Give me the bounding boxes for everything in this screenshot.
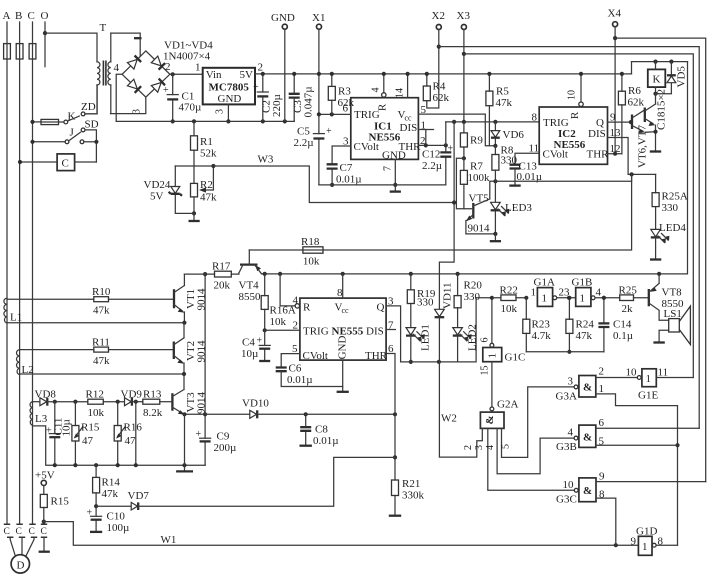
node A — [3, 10, 11, 22]
svg-text:R14: R14 — [102, 477, 121, 489]
ground IC1 — [390, 185, 401, 192]
svg-text:VT6,VT7: VT6,VT7 — [637, 124, 649, 168]
node O — [41, 10, 49, 22]
wire IC2 cvolt pin 11 — [515, 142, 539, 164]
resistor R8 — [492, 145, 518, 184]
svg-text:0.1µ: 0.1µ — [613, 330, 633, 342]
wire Q out bus — [401, 360, 458, 364]
svg-text:THR: THR — [365, 350, 388, 362]
svg-text:0.01µ: 0.01µ — [313, 435, 339, 447]
svg-text:1: 1 — [487, 353, 499, 359]
svg-text:52k: 52k — [200, 148, 217, 160]
svg-text:47k: 47k — [93, 355, 110, 367]
transformer T — [45, 22, 111, 114]
svg-text:Vin: Vin — [206, 69, 222, 81]
svg-text:8: 8 — [532, 112, 538, 124]
buffer G1A — [531, 277, 576, 307]
terminal X3 — [457, 10, 471, 122]
relay coil K — [632, 60, 688, 96]
svg-text:1: 1 — [642, 541, 648, 553]
svg-text:47k: 47k — [200, 192, 217, 204]
transistor VT8 — [649, 274, 684, 320]
svg-text:C: C — [41, 527, 47, 537]
nand G3A — [556, 366, 680, 546]
svg-text:R25A: R25A — [662, 191, 688, 203]
svg-text:W3: W3 — [258, 154, 274, 166]
speaker LS1 — [653, 306, 690, 344]
svg-text:R10: R10 — [92, 286, 111, 298]
svg-text:C10: C10 — [107, 511, 126, 523]
fuse FA — [4, 44, 11, 59]
svg-text:62k: 62k — [628, 97, 645, 109]
svg-text:6: 6 — [599, 417, 605, 429]
terminal X1 — [312, 12, 325, 132]
svg-text:G3A: G3A — [556, 391, 577, 403]
inductor L1 — [4, 298, 22, 323]
svg-text:NE555: NE555 — [332, 325, 364, 337]
svg-text:C: C — [28, 10, 35, 22]
svg-text:R16: R16 — [124, 422, 143, 434]
svg-text:A: A — [3, 10, 11, 22]
svg-text:+: + — [448, 144, 454, 155]
svg-text:4: 4 — [596, 287, 602, 299]
svg-text:VD24: VD24 — [144, 179, 171, 191]
svg-text:62k: 62k — [338, 97, 355, 109]
resistor R19 — [407, 274, 436, 328]
transistor VT3 — [172, 374, 207, 416]
capacitor C12 — [422, 122, 454, 185]
svg-text:R1: R1 — [200, 136, 213, 148]
resistor R21 — [389, 414, 425, 515]
svg-text:47k: 47k — [576, 330, 593, 342]
svg-text:200µ: 200µ — [214, 442, 237, 454]
wire NE555 thr to C8 node — [386, 354, 395, 415]
nand G3B — [556, 417, 699, 453]
ground below LED3 — [490, 234, 501, 241]
wire NE555 dis pin 7 — [386, 320, 395, 332]
svg-text:THR: THR — [587, 149, 610, 161]
capacitor C10 — [87, 506, 130, 534]
wire phase A line — [6, 22, 8, 524]
svg-text:R15: R15 — [51, 496, 70, 508]
svg-text:C: C — [29, 527, 35, 537]
svg-text:C12: C12 — [422, 149, 440, 161]
svg-text:330: 330 — [464, 291, 481, 303]
wire VT4 emitter rail — [262, 62, 688, 276]
svg-text:LED2: LED2 — [467, 324, 479, 351]
svg-text:+: + — [253, 82, 259, 93]
inverter G1C — [480, 296, 526, 407]
wire NE555 out pin 3 — [386, 296, 401, 362]
wire IC1 vcc pin 14 — [395, 72, 410, 98]
resistor R3 — [328, 72, 354, 115]
resistor R25A — [652, 174, 688, 229]
resistor R5 — [486, 72, 513, 146]
svg-text:C14: C14 — [613, 319, 632, 331]
resistor R4 — [423, 72, 449, 108]
svg-text:+: + — [196, 429, 202, 440]
svg-text:VD8: VD8 — [35, 389, 57, 401]
svg-text:&: & — [484, 415, 496, 424]
svg-text:R15: R15 — [81, 422, 100, 434]
capacitor C11 — [46, 402, 73, 466]
resistor R25 — [619, 285, 649, 316]
wire O line — [43, 22, 47, 67]
svg-text:4: 4 — [371, 88, 382, 93]
svg-text:G1E: G1E — [638, 390, 658, 402]
svg-text:G1A: G1A — [534, 277, 555, 289]
transistors VT6 VT7 — [631, 89, 668, 168]
svg-text:C: C — [4, 527, 10, 537]
capacitor C1 — [163, 74, 201, 123]
svg-text:4: 4 — [114, 62, 120, 74]
svg-text:VT5: VT5 — [469, 193, 490, 205]
svg-text:2: 2 — [165, 61, 171, 73]
switch J — [30, 127, 98, 144]
resistor R14 — [93, 465, 121, 508]
svg-text:O: O — [41, 10, 49, 22]
svg-text:R21: R21 — [402, 478, 420, 490]
svg-text:C5: C5 — [297, 126, 310, 138]
svg-text:330: 330 — [501, 155, 518, 167]
svg-text:CVolt: CVolt — [303, 350, 328, 362]
svg-text:11: 11 — [529, 142, 540, 154]
capacitor C4 — [241, 330, 270, 361]
wire L2 lower tap — [20, 372, 186, 376]
svg-text:LED3: LED3 — [505, 202, 532, 214]
svg-text:10k: 10k — [303, 256, 320, 268]
svg-text:LED4: LED4 — [659, 222, 686, 234]
resistor R10 — [7, 286, 174, 317]
svg-text:R7: R7 — [470, 161, 483, 173]
contactor coil box C — [18, 154, 97, 171]
svg-text:C1815×2: C1815×2 — [656, 89, 668, 130]
svg-text:G1C: G1C — [505, 352, 526, 364]
svg-text:T: T — [100, 22, 107, 34]
resistor R18 — [301, 236, 323, 268]
capacitor C3 — [289, 72, 315, 122]
svg-text:Q: Q — [377, 302, 385, 314]
svg-text:+: + — [257, 336, 263, 347]
svg-text:VT8: VT8 — [662, 287, 683, 299]
svg-text:1: 1 — [195, 62, 201, 74]
wire IC2 dis pin 13 — [608, 127, 629, 174]
wire IC2 out pin 9 — [608, 111, 634, 124]
resistor R12 — [86, 389, 125, 420]
wire VT5 collector to R8 node — [490, 174, 632, 199]
svg-text:11: 11 — [658, 367, 669, 379]
svg-text:10k: 10k — [270, 316, 287, 328]
svg-text:2: 2 — [599, 366, 605, 378]
svg-text:3: 3 — [568, 376, 574, 388]
svg-text:330k: 330k — [402, 490, 425, 502]
wire VD9 junction down — [135, 402, 137, 466]
capacitor C13 — [509, 161, 542, 186]
wire phase B line — [19, 22, 21, 524]
wire bridge positive to regulator — [170, 62, 203, 77]
wire X4 to right edge — [615, 38, 706, 482]
svg-text:R11: R11 — [92, 337, 110, 349]
svg-text:1: 1 — [646, 373, 652, 385]
svg-text:14: 14 — [395, 88, 406, 98]
svg-text:VD7: VD7 — [128, 490, 150, 502]
svg-text:VD6: VD6 — [503, 129, 525, 141]
svg-text:R25: R25 — [619, 285, 638, 297]
svg-text:4: 4 — [568, 427, 574, 439]
svg-text:2: 2 — [463, 445, 474, 450]
bridge rectifier VD1~VD4 — [114, 40, 214, 115]
fuse FC — [29, 44, 36, 59]
svg-text:R: R — [377, 103, 389, 111]
svg-text:+: + — [326, 126, 332, 137]
svg-text:R6: R6 — [628, 85, 641, 97]
connector row C C C C — [4, 524, 48, 537]
resistor R9 — [460, 122, 483, 160]
node B — [15, 10, 22, 22]
resistor R2 preset — [191, 164, 218, 216]
resistor R24 — [566, 296, 594, 354]
svg-text:DIS: DIS — [366, 325, 384, 337]
svg-text:2k: 2k — [622, 303, 634, 315]
wire secondary top to bridge — [111, 33, 142, 56]
wire IC1 dis pin 1 — [418, 120, 433, 146]
wire phase C line — [32, 22, 34, 524]
resistor R11 — [20, 337, 174, 368]
svg-text:G2A: G2A — [497, 399, 518, 411]
svg-text:SD: SD — [85, 118, 99, 130]
switch K with series fuse — [30, 111, 79, 125]
svg-text:G3B: G3B — [556, 441, 577, 453]
svg-text:10k: 10k — [88, 407, 105, 419]
svg-text:+: + — [163, 85, 169, 96]
wire IC1 thr to IC2 trig — [446, 120, 539, 124]
svg-text:ZD: ZD — [81, 101, 96, 113]
svg-text:L1: L1 — [10, 312, 22, 324]
svg-text:470µ: 470µ — [179, 102, 202, 114]
svg-text:MC7805: MC7805 — [209, 82, 250, 94]
svg-text:B: B — [15, 10, 22, 22]
capacitor C14 — [598, 296, 633, 352]
wire NE555 trig pin 2 — [265, 320, 300, 332]
svg-text:62k: 62k — [433, 92, 450, 104]
svg-text:R22: R22 — [500, 285, 518, 297]
svg-text:DIS: DIS — [588, 128, 606, 140]
svg-text:330: 330 — [662, 202, 679, 214]
svg-text:5: 5 — [501, 444, 512, 449]
transistor VT5 — [466, 193, 496, 235]
svg-text:R18: R18 — [301, 236, 320, 248]
capacitor C5 — [294, 126, 333, 185]
capacitor C6 — [276, 363, 343, 387]
svg-text:C: C — [62, 158, 69, 170]
timer IC1 NE556 — [351, 98, 421, 162]
svg-text:VD5: VD5 — [676, 66, 688, 88]
diode VD5 — [656, 62, 688, 94]
svg-text:GND: GND — [337, 336, 349, 360]
svg-text:20k: 20k — [214, 280, 231, 292]
wire NE555 cvolt pin 5 — [281, 343, 300, 368]
inductor L3 — [30, 402, 48, 425]
diode VD6 — [491, 122, 524, 148]
svg-text:R12: R12 — [86, 389, 104, 401]
wire bridge negative to ground rail — [116, 74, 122, 121]
svg-text:R3: R3 — [338, 86, 351, 98]
svg-text:&: & — [583, 432, 592, 444]
svg-text:DIS: DIS — [400, 122, 418, 134]
svg-text:47: 47 — [125, 435, 137, 447]
svg-text:47k: 47k — [102, 488, 119, 500]
svg-text:R9: R9 — [470, 135, 483, 147]
svg-text:X2: X2 — [432, 10, 445, 22]
svg-text:G1B: G1B — [572, 277, 593, 289]
wire W1 — [44, 522, 639, 548]
wire IC1 gnd pin 7 — [383, 159, 398, 187]
svg-text:10k: 10k — [501, 303, 518, 315]
svg-text:R24: R24 — [576, 319, 595, 331]
svg-text:10µ: 10µ — [241, 348, 258, 360]
nand G2A — [439, 362, 574, 490]
wire VT3 emitter to ground — [176, 414, 193, 471]
resistor R6 — [618, 72, 644, 154]
transistor VT1 — [174, 274, 208, 323]
svg-text:R17: R17 — [212, 261, 231, 273]
diode VD9 — [121, 389, 143, 406]
svg-text:8: 8 — [599, 489, 605, 501]
fuse FB — [16, 44, 23, 59]
wire NE555 vcc pin 8 — [337, 274, 343, 299]
svg-text:R4: R4 — [433, 81, 446, 93]
motor D — [10, 537, 34, 573]
resistor R13 — [143, 389, 173, 420]
wire R9 tap to VT5 base — [456, 158, 471, 208]
capacitor C2 — [253, 72, 283, 122]
ground below LED4 — [650, 258, 661, 260]
svg-text:7: 7 — [383, 166, 394, 171]
svg-text:15: 15 — [480, 366, 491, 376]
wire NE555 thr pin 6 label — [388, 343, 394, 355]
wire R23 R24 C14 bottom rail — [526, 351, 604, 353]
svg-text:CVolt: CVolt — [543, 149, 568, 161]
svg-text:1: 1 — [599, 383, 605, 395]
svg-text:X4: X4 — [608, 8, 622, 20]
svg-text:L3: L3 — [35, 413, 48, 425]
svg-text:VD11: VD11 — [442, 283, 454, 309]
resistor R17 — [184, 261, 239, 292]
svg-text:0.01µ: 0.01µ — [336, 174, 362, 186]
svg-text:C4: C4 — [242, 337, 255, 349]
timer U2 NE555 — [300, 298, 388, 362]
svg-text:1: 1 — [531, 287, 537, 299]
svg-text:100k: 100k — [468, 172, 491, 184]
inverter G1D — [631, 526, 678, 556]
capacitor C8 — [300, 414, 339, 447]
wire collector bus — [203, 272, 207, 414]
svg-text:VT4: VT4 — [239, 280, 260, 292]
svg-text:+: + — [46, 426, 52, 437]
switch contact SD — [81, 118, 98, 162]
rheostat R15 — [72, 402, 100, 466]
svg-text:5: 5 — [599, 436, 605, 448]
capacitor C9 — [196, 412, 237, 465]
wire X2 to right edge — [439, 47, 699, 429]
resistor R1 — [191, 121, 218, 183]
svg-text:GND: GND — [218, 93, 242, 105]
wire regulator ground pin 3 — [215, 104, 231, 123]
svg-text:&: & — [583, 382, 592, 394]
diode VD11 — [435, 122, 457, 362]
svg-text:&: & — [583, 485, 592, 497]
svg-text:LED1: LED1 — [420, 324, 432, 351]
resistor R7 — [460, 158, 490, 208]
diode VD7 — [96, 457, 395, 510]
wire 0V rail — [116, 119, 294, 123]
svg-text:GND: GND — [271, 12, 295, 24]
svg-text:47k: 47k — [93, 305, 110, 317]
capacitor C7 — [327, 136, 362, 187]
diode VD10 — [205, 398, 397, 419]
svg-text:6: 6 — [480, 338, 491, 343]
svg-text:R: R — [569, 111, 581, 119]
wire IC2 thr pin 12 — [608, 143, 622, 156]
svg-text:R2: R2 — [200, 179, 213, 191]
wire analog ground under IC1 — [319, 184, 446, 186]
ground below R2 — [189, 213, 200, 221]
zener diode VD24 — [144, 166, 195, 213]
ground on 4th connector line — [39, 537, 50, 552]
svg-text:47k: 47k — [496, 97, 513, 109]
terminal +5V — [35, 470, 55, 486]
svg-text:1: 1 — [542, 293, 548, 305]
svg-text:6: 6 — [388, 343, 394, 355]
svg-text:9: 9 — [599, 471, 605, 483]
svg-text:TRIG: TRIG — [303, 325, 329, 337]
svg-text:3: 3 — [343, 136, 349, 148]
svg-text:C9: C9 — [217, 431, 230, 443]
switch contact ZD — [81, 85, 97, 116]
svg-text:C8: C8 — [315, 424, 328, 436]
svg-text:4: 4 — [485, 445, 496, 450]
svg-text:5V: 5V — [150, 191, 164, 203]
svg-text:X3: X3 — [457, 10, 471, 22]
led LED1 — [406, 324, 432, 364]
svg-text:9: 9 — [631, 536, 637, 548]
inductor L2 — [16, 350, 33, 376]
nand G3C — [556, 471, 706, 546]
wire DIS13 node — [249, 172, 655, 250]
wire IC1 trig pin 6 — [317, 103, 351, 117]
svg-text:100µ: 100µ — [107, 522, 130, 534]
wire W3 — [175, 154, 454, 203]
svg-text:220µ: 220µ — [271, 94, 283, 117]
wire regulator output pin 2 — [255, 62, 632, 74]
svg-text:cc: cc — [342, 306, 350, 315]
svg-text:C6: C6 — [289, 363, 302, 375]
wire bridge AC bottom — [111, 97, 146, 114]
led LED2 — [453, 298, 493, 362]
wire IC1 reset pin 4 — [371, 72, 386, 97]
resistor R16A — [261, 274, 296, 333]
svg-text:3: 3 — [215, 109, 226, 114]
wire IC2 reset pin 10 — [567, 72, 584, 107]
svg-text:0.01µ: 0.01µ — [287, 374, 313, 386]
svg-text:10: 10 — [626, 367, 638, 379]
diode VD8 — [33, 389, 88, 406]
buffer G1B — [572, 277, 620, 307]
transistor VT4 — [239, 250, 265, 303]
svg-text:VD10: VD10 — [242, 398, 269, 410]
resistor R22 — [493, 285, 528, 316]
wire IC1 out pin 5 — [418, 104, 495, 146]
